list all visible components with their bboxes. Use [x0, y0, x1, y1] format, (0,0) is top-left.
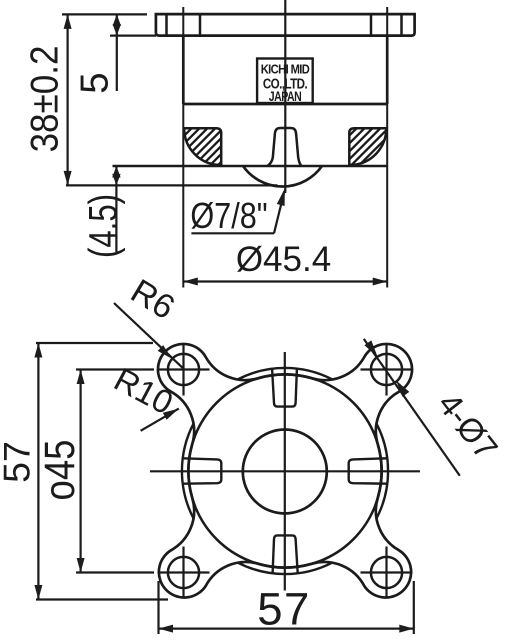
svg-text:57: 57: [257, 584, 311, 635]
svg-text:o45: o45: [36, 440, 83, 501]
svg-text:57: 57: [0, 441, 37, 483]
svg-text:5: 5: [74, 72, 117, 93]
svg-text:38±0.2: 38±0.2: [23, 46, 66, 153]
svg-text:Ø7/8": Ø7/8": [190, 196, 267, 237]
svg-text:JAPAN: JAPAN: [269, 89, 302, 105]
svg-text:(4.5): (4.5): [81, 194, 126, 258]
svg-text:R6: R6: [124, 272, 181, 327]
svg-text:Ø45.4: Ø45.4: [236, 240, 331, 279]
svg-text:4-Ø7: 4-Ø7: [431, 386, 505, 467]
